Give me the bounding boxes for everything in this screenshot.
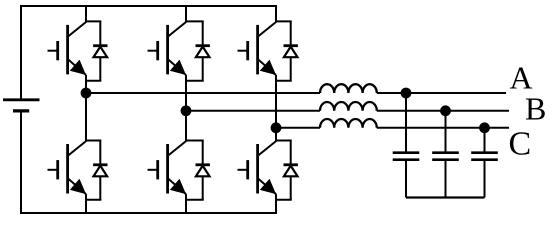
wire (capacitor neutral bus) [406,196,485,198]
wire (bottom stub Q1/D1) [85,80,101,82]
wire (emitter lead of Q4) [85,194,87,213]
wire (bottom stub Q5/D5) [275,80,292,82]
inductor LC (phase C filter choke) [320,119,377,128]
wire (phase C line, inductor to output) [377,127,509,129]
wire (top stub Q5/D5) [275,20,292,22]
wire (bottom stub Q3/D3) [185,80,204,82]
inductor LB (phase B filter choke) [320,102,377,111]
wire (top stub Q2/D2) [275,140,292,142]
wire (phase B line, inductor to output) [377,110,509,112]
wire (top stub Q4/D4) [85,140,101,142]
capacitor CC (phase C filter capacitor) [471,128,498,198]
inductor LA (phase A filter choke) [320,84,377,93]
IGBT Q6 [148,141,187,194]
wire (collector lead of Q2) [275,128,277,142]
wire (emitter lead of Q3) [185,75,187,111]
capacitor CB (phase B filter capacitor) [432,111,459,198]
IGBT Q3 [148,22,187,75]
diode D1 (anti-parallel with Q1) [93,21,107,80]
svg-text:C: C [509,126,532,163]
wire (collector lead of Q6) [185,111,187,142]
battery V1 (DC source short negative plate) [13,109,29,112]
wire (top stub Q1/D1) [85,20,101,22]
capacitor CA (phase A filter capacitor) [393,93,420,198]
wire (emitter lead of Q1) [85,75,87,93]
wire (bottom stub Q2/D2) [275,199,292,201]
node B label [525,90,546,126]
wire (bottom stub Q6/D6) [185,199,204,201]
diode D3 (anti-parallel with Q3) [196,21,210,80]
wire (phase B line, leg to filter inductor) [186,110,320,112]
wire (phase A line, leg to filter inductor) [86,92,320,94]
svg-text:B: B [525,90,546,126]
wire (emitter lead of Q2) [275,194,277,213]
wire (phase C line, leg to filter inductor) [276,127,320,129]
wire (top DC bus) [20,5,277,7]
diode D2 (anti-parallel with Q2) [284,141,298,200]
wire (bottom DC bus) [20,212,277,214]
wire (top stub Q3/D3) [185,20,204,22]
wire (collector lead of Q1) [85,5,87,23]
wire (collector lead of Q4) [85,93,87,142]
node phase B (leg midpoint junction) [181,105,192,116]
diode D4 (anti-parallel with Q4) [93,141,107,200]
wire (DC+ rail top-left vertical) [20,5,22,99]
diode D5 (anti-parallel with Q5) [284,21,298,80]
node phase B capacitor junction [440,105,451,116]
IGBT Q4 [48,141,87,194]
wire (collector lead of Q3) [185,5,187,23]
wire (bottom stub Q4/D4) [85,199,101,201]
node phase C (leg midpoint junction) [271,122,282,133]
battery V1 (DC source long positive plate) [3,98,40,101]
node C label [509,126,532,163]
node phase A (leg midpoint junction) [81,88,92,99]
wire (top stub Q6/D6) [185,140,204,142]
diode D6 (anti-parallel with Q6) [196,141,210,200]
node phase A capacitor junction [401,88,412,99]
node phase C capacitor junction [479,122,490,133]
IGBT Q2 [238,141,277,194]
wire (collector lead of Q5) [275,5,277,23]
node A label [510,60,533,96]
wire (DC- rail bottom-left vertical) [20,111,22,213]
IGBT Q1 [48,22,87,75]
wire (phase A line, inductor to output) [377,92,506,94]
wire (emitter lead of Q6) [185,194,187,213]
IGBT Q5 [238,22,277,75]
wire (emitter lead of Q5) [275,75,277,128]
